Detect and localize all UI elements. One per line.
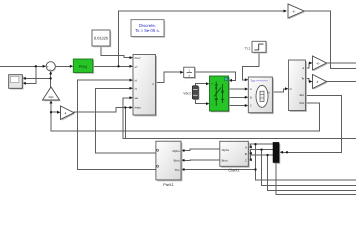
wire branch to right edge 4 <box>276 163 356 195</box>
svg-text:C: C <box>245 158 247 162</box>
wire Vdc plus to bridge <box>195 84 206 86</box>
svg-text:TL1: TL1 <box>245 46 251 50</box>
wire branch ia to right edge <box>256 144 356 180</box>
svg-text:B: B <box>250 97 252 100</box>
svg-text:Beta: Beta <box>174 159 180 163</box>
arrowheads into blocks <box>43 65 47 68</box>
wire machine m to bus selector <box>272 89 285 92</box>
wire gain4 to controller theta port <box>74 108 130 113</box>
wire Clark beta to Park <box>184 159 220 161</box>
svg-text:B: B <box>245 152 247 156</box>
svg-text:Vdc2: Vdc2 <box>183 92 191 96</box>
wire Wm branch to controller we port <box>123 98 356 139</box>
wire scope input 1 <box>26 77 51 79</box>
svg-text:Ts = 5e-05 s.: Ts = 5e-05 s. <box>135 28 160 33</box>
svg-text:-K-: -K- <box>292 9 296 13</box>
svg-text:theta: theta <box>135 107 141 110</box>
svg-text:A: A <box>245 146 247 150</box>
svg-text:30pi: 30pi <box>48 95 54 99</box>
svg-text:+: + <box>211 82 213 86</box>
wire top gain output down right side <box>304 11 356 68</box>
wire G1 output <box>327 62 356 64</box>
svg-text:we: we <box>135 97 139 100</box>
gain top -K- <box>288 4 305 19</box>
powergui block <box>131 20 165 38</box>
wire scope input 2 <box>26 66 36 83</box>
Park transform block <box>156 141 183 187</box>
wire sum to PI controller <box>55 65 70 67</box>
wire Clark alpha to Park <box>184 149 220 151</box>
wire controller output to rate block <box>156 72 181 82</box>
rate transition block <box>184 67 196 79</box>
wire bridge phase C <box>229 105 246 107</box>
wire Wm wrap long feedback <box>51 103 320 131</box>
sum block <box>46 62 56 72</box>
svg-text:A: A <box>250 88 252 91</box>
PMSM machine block <box>248 77 273 114</box>
wire branch ib to right edge <box>262 150 356 186</box>
demux black bar <box>273 142 280 163</box>
wire speed reference from left edge into sum <box>0 65 44 67</box>
svg-text:Te: Te <box>301 78 304 81</box>
bus selector measurement block <box>289 60 307 112</box>
wire G2 output <box>327 81 356 83</box>
wire bridge phase B <box>229 96 246 98</box>
FOC controller subsystem <box>133 55 157 117</box>
wire step TL1 to machine Tm <box>243 52 259 80</box>
universal bridge inverter (green) <box>210 76 230 112</box>
wire Park Q up to controller id <box>78 80 156 169</box>
svg-text:Clark1: Clark1 <box>228 167 240 172</box>
Clark transform block <box>220 141 250 172</box>
svg-text:iabc: iabc <box>299 94 305 97</box>
wire speed feedback up into 30pi gain <box>50 103 52 131</box>
svg-text:4: 4 <box>65 111 67 115</box>
step block TL1 <box>245 41 268 53</box>
constant 0.01325 <box>92 30 111 47</box>
gain G2 value 4 <box>313 75 328 90</box>
svg-text:Alpha: Alpha <box>172 149 180 153</box>
wire feedback into sum bottom <box>50 74 52 87</box>
wire theta to Park <box>184 169 256 171</box>
svg-text:PI(s): PI(s) <box>79 64 88 69</box>
gain 4 pointing right <box>61 106 76 121</box>
junction dots <box>35 65 37 67</box>
wire Vdc minus to bridge <box>195 99 206 104</box>
wire demux out3 to Clark C <box>251 155 274 160</box>
wire PI output to controller w* port <box>93 65 130 67</box>
svg-text:-K-: -K- <box>316 61 320 65</box>
PI controller block (green) <box>73 59 94 74</box>
wire Park D up to controller iq <box>95 88 156 153</box>
svg-text:Park1: Park1 <box>163 182 174 187</box>
wire demux out2 to Clark B <box>251 150 274 154</box>
DC voltage source Vdc2 <box>183 86 199 100</box>
svg-text:Wm: Wm <box>299 102 305 105</box>
svg-text:w*: w* <box>135 66 138 69</box>
gain G1 -K- <box>313 56 328 71</box>
wire flux constant to controller <box>101 46 130 58</box>
svg-text:4: 4 <box>317 80 319 84</box>
svg-text:Tm: Tm <box>250 79 255 83</box>
wire bridge phase A <box>229 88 246 90</box>
wire iabc wrap to demux <box>282 96 341 153</box>
svg-text:0.01325: 0.01325 <box>94 36 108 41</box>
svg-text:The: The <box>175 168 180 172</box>
wire bus is to gain G1 <box>306 63 310 68</box>
wire branch into gain4 <box>51 111 58 113</box>
wire bus Te to gain G2 <box>306 79 310 82</box>
scope Scope2 <box>9 75 24 90</box>
svg-text:Flux*: Flux* <box>135 57 141 60</box>
svg-text:C: C <box>250 105 252 108</box>
svg-text:Beta: Beta <box>222 159 228 163</box>
wire demux out1 to Clark A <box>251 144 274 147</box>
wire rate block to bridge gate <box>195 72 236 80</box>
gain 30pi pointing up <box>43 87 61 101</box>
wire tap up to top gain <box>119 11 285 66</box>
wire branch theta down to long line <box>124 108 126 139</box>
svg-text:Alpha: Alpha <box>222 148 230 152</box>
wire branch ic to right edge <box>268 155 356 190</box>
